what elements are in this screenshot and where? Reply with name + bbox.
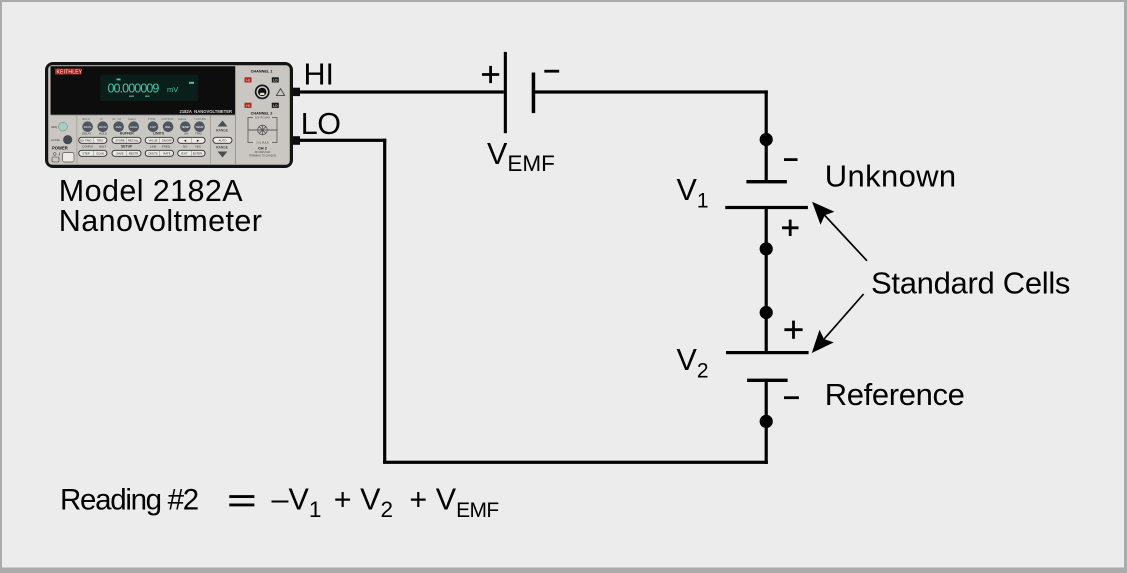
svg-text:Unknown: Unknown [825, 158, 957, 193]
svg-text:SETUP: SETUP [121, 145, 133, 149]
mid labels row [82, 131, 203, 135]
svg-text:TRIG: TRIG [195, 131, 203, 135]
channel 2 diagram [248, 118, 277, 143]
svg-text:EX TRIG: EX TRIG [80, 139, 91, 143]
svg-text:NPLC: NPLC [82, 117, 91, 121]
svg-text:LO: LO [273, 104, 278, 108]
svg-text:LOCAL: LOCAL [51, 138, 61, 142]
svg-text:STORE: STORE [115, 139, 125, 143]
svg-text:LIMITS: LIMITS [153, 132, 165, 136]
power area [59, 122, 68, 131]
svg-text:YES: YES [195, 144, 201, 148]
svg-text:Gains: Gains [128, 117, 136, 121]
svg-text:ON/OFF: ON/OFF [162, 139, 173, 143]
svg-text:ACAL: ACAL [130, 125, 138, 129]
svg-text:REL: REL [165, 125, 171, 129]
svg-text:HI: HI [246, 104, 249, 108]
nanovoltmeter Model 2182A (instrument front panel) [45, 62, 300, 168]
oval button row 3 [79, 150, 205, 156]
arrow from Standard Cells to V1 cell [812, 202, 867, 261]
arrow from Standard Cells to V2 cell [812, 294, 864, 353]
svg-text:ON: ON [184, 131, 188, 135]
svg-text:CHANNEL 1: CHANNEL 1 [251, 70, 273, 74]
polarity minus of V2 [784, 396, 799, 399]
svg-text:CONFIG: CONFIG [82, 144, 94, 148]
svg-text:DELAY: DELAY [82, 131, 91, 135]
svg-text:00.000009: 00.000009 [108, 82, 160, 96]
svg-text:LO: LO [301, 107, 341, 141]
svg-text:DIGITS: DIGITS [148, 152, 157, 156]
svg-text:RATE: RATE [163, 152, 170, 156]
svg-text:HALT: HALT [99, 144, 106, 148]
svg-text:NO: NO [183, 144, 188, 148]
svg-text:KEITHLEY: KEITHLEY [57, 69, 83, 75]
svg-text:CHANNEL 2: CHANNEL 2 [251, 112, 273, 116]
svg-text:RANGE: RANGE [216, 145, 229, 149]
wire bottom return horizontal [383, 461, 768, 464]
polarity plus of V1 [782, 220, 799, 236]
polarity plus of V2 [784, 321, 802, 339]
svg-text:BUFFER: BUFFER [120, 132, 134, 136]
svg-text:HOLD: HOLD [99, 131, 107, 135]
svg-text:Nanovoltmeter: Nanovoltmeter [59, 204, 263, 238]
cell V1 positive plate (long) [725, 206, 808, 209]
svg-text:Reading #2: Reading #2 [60, 484, 198, 517]
svg-text:TYPE: TYPE [148, 117, 156, 121]
svg-text:HI: HI [304, 57, 335, 91]
wire LO horizontal from nanovoltmeter [292, 139, 386, 142]
round button row labels [82, 117, 207, 121]
svg-text:ENTER: ENTER [193, 152, 202, 156]
wire V1 positive plate to V2 positive plate [765, 206, 768, 354]
svg-text:VALUE: VALUE [149, 139, 158, 143]
battery V_EMF positive plate (long) [504, 52, 507, 133]
svg-text:AVG: AVG [116, 125, 123, 129]
cell V2 positive plate (long) [726, 351, 809, 354]
svg-text:Adjust: Adjust [178, 117, 187, 121]
svg-text:TRIG: TRIG [97, 139, 104, 143]
keypad separators [76, 115, 79, 164]
svg-text:TERMINAL TO CHASSIS: TERMINAL TO CHASSIS [249, 154, 276, 157]
svg-text:Reference: Reference [825, 377, 965, 412]
wire from V_EMF negative plate to top-right corner [534, 90, 768, 93]
svg-text:CH 2: CH 2 [258, 147, 267, 151]
svg-text:LINE: LINE [150, 144, 156, 148]
svg-text:mV: mV [167, 85, 178, 94]
svg-text:OUTPUT: OUTPUT [162, 117, 175, 121]
svg-text:TEMP: TEMP [195, 125, 203, 129]
svg-text:Standard Cells: Standard Cells [871, 266, 1070, 301]
junction dot below V2 [760, 415, 773, 428]
range column [218, 121, 228, 127]
cell V2 negative plate (short) [747, 379, 788, 382]
junction dot node between V_EMF- and V1- [760, 133, 773, 146]
svg-text:O I: O I [53, 152, 60, 157]
cell V1 negative plate (short) [746, 180, 787, 183]
svg-text:DCV2: DCV2 [99, 125, 107, 129]
svg-text:TEMP: TEMP [181, 125, 189, 129]
mid labels row 2 [82, 144, 201, 148]
svg-text:%: % [100, 117, 103, 121]
svg-text:SCAN: SCAN [96, 152, 104, 156]
wire vertical drop to V1 negative plate [765, 90, 768, 183]
oval button row 2 [79, 137, 205, 143]
wire LO vertical drop [383, 139, 386, 464]
svg-text:AUTO: AUTO [219, 139, 228, 143]
svg-text:Model 2182A: Model 2182A [59, 174, 243, 208]
polarity plus of V_EMF [482, 66, 499, 83]
formula Reading #2 = -V1 + V2 + V_EMF [60, 483, 499, 522]
svg-text:DCV1: DCV1 [84, 125, 92, 129]
svg-text:HI: HI [246, 78, 249, 82]
svg-text:STEP: STEP [82, 152, 89, 156]
svg-text:2182A NANOVOLTMETER: 2182A NANOVOLTMETER [180, 109, 233, 114]
svg-text:TCOUPL: TCOUPL [194, 117, 207, 121]
junction dot below V1 [760, 242, 773, 255]
svg-text:SRQ: SRQ [51, 125, 58, 129]
battery V_EMF negative plate (short) [532, 73, 536, 114]
svg-text:FILT: FILT [150, 125, 156, 129]
polarity minus of V_EMF [544, 70, 559, 73]
svg-text:EXIT: EXIT [181, 152, 188, 156]
round buttons [82, 121, 205, 132]
svg-text:POWER: POWER [52, 146, 68, 151]
svg-text:SAVE: SAVE [116, 152, 123, 156]
svg-text:RESTR: RESTR [129, 152, 138, 156]
svg-text:30V PK MAX: 30V PK MAX [255, 116, 270, 120]
svg-text:RECALL: RECALL [128, 139, 139, 143]
polarity minus of V1 [784, 158, 798, 161]
svg-text:CAL BULB: CAL BULB [256, 141, 269, 145]
wire V2 negative plate down to bottom return [765, 379, 768, 464]
svg-text:FREQ: FREQ [162, 144, 171, 148]
svg-text:V1, V2: V1, V2 [112, 117, 121, 121]
LCD window [100, 75, 198, 102]
junction dot above V2 [760, 306, 773, 319]
svg-text:LO: LO [273, 78, 278, 82]
wire HI from nanovoltmeter to V_EMF positive plate [292, 90, 504, 93]
label Model 2182A Nanovoltmeter [59, 174, 263, 238]
KEITHLEY logo [55, 69, 82, 75]
svg-text:RANGE: RANGE [216, 129, 229, 133]
